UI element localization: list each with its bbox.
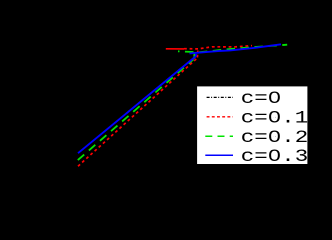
legend box [197,86,307,164]
legend sample c=0 (black dash-dot) [207,96,233,98]
red curve c=0.1: upper branch dashed right part [184,46,252,49]
legend sample c=0.1 (red dashed) [207,116,233,118]
blue curve c=0.3: upper branch [190,44,282,53]
red curve c=0.1: jump connector [196,51,198,58]
green curve c=0.2: jump connector [193,52,195,59]
green curve c=0.2: upper branch [178,45,287,53]
line c=0 (black dash-dot, invisible on black background) [75,62,196,160]
red curve c=0.1: upper branch solid left part [166,48,184,50]
blue curve c=0.3: connector [196,54,197,56]
white dots to clean zero glyph counters [272,94,276,99]
svg-text:c=0.1: c=0.1 [241,108,308,128]
svg-text:c=0: c=0 [241,89,281,109]
legend sample c=0.3 (blue solid) [205,154,233,156]
blue curve c=0.3: rising branch [78,57,196,154]
green curve c=0.2: rising branch [78,59,194,160]
svg-text:c=0.2: c=0.2 [241,128,308,148]
legend sample c=0.2 (green dashed) [205,135,233,137]
red curve c=0.1: rising branch [78,58,197,166]
svg-text:c=0.3: c=0.3 [241,147,308,167]
